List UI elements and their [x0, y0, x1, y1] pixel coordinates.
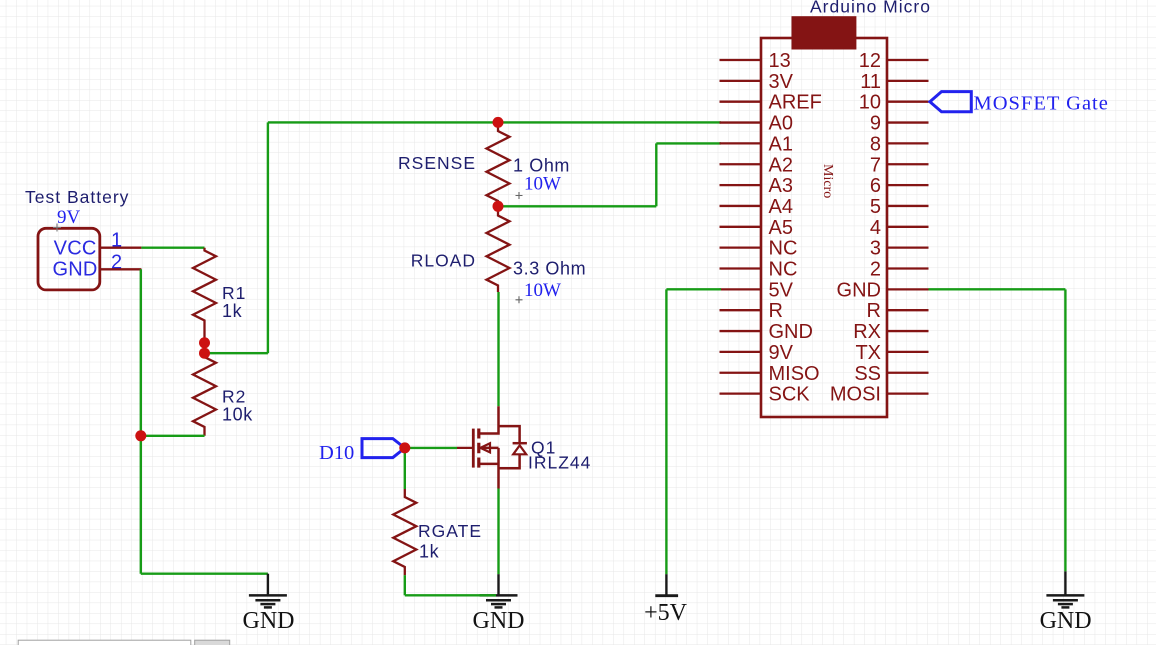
svg-text:SCK: SCK — [769, 384, 811, 406]
svg-text:A3: A3 — [769, 175, 793, 197]
svg-text:RX: RX — [853, 321, 881, 343]
label RGATE — [418, 521, 482, 541]
svg-text:13: 13 — [769, 50, 791, 72]
svg-text:SS: SS — [854, 363, 881, 385]
svg-text:5: 5 — [870, 196, 881, 218]
svg-text:GND: GND — [52, 259, 97, 281]
anchor cross BT1 — [53, 224, 61, 232]
svg-text:9V: 9V — [57, 207, 81, 228]
ground symbol left — [249, 595, 287, 607]
pin name GND — [52, 259, 97, 281]
svg-text:8: 8 — [870, 133, 881, 155]
hierarchical label D10 flag — [362, 439, 405, 458]
pin number 2 — [111, 251, 122, 273]
pin 1 line — [100, 247, 141, 249]
svg-text:3V: 3V — [769, 71, 794, 93]
label R1 — [222, 283, 246, 303]
label Test Battery — [25, 187, 129, 207]
Arduino left pins — [720, 60, 762, 394]
svg-text:D10: D10 — [319, 442, 354, 464]
wire RGATE bottom to ground — [405, 594, 496, 596]
IC U1 Arduino Micro body — [761, 38, 887, 417]
svg-text:10W: 10W — [524, 280, 561, 301]
junction D10 node — [399, 442, 410, 453]
svg-text:A0: A0 — [769, 113, 793, 135]
value 10k — [222, 405, 253, 425]
pin name VCC — [54, 237, 97, 259]
wire tap to right riser — [205, 352, 268, 354]
svg-text:IRLZ44: IRLZ44 — [528, 453, 591, 473]
ui scrollbar button — [195, 640, 230, 645]
svg-text:6: 6 — [870, 175, 881, 197]
junction ground net left — [135, 430, 146, 441]
value 10W RSENSE — [524, 174, 561, 195]
svg-text:R1: R1 — [222, 283, 246, 303]
value 1k R1 — [222, 301, 243, 321]
svg-text:NC: NC — [769, 238, 798, 260]
svg-text:GND: GND — [473, 608, 525, 634]
junction divider tap — [199, 348, 210, 359]
svg-text:7: 7 — [870, 154, 881, 176]
svg-text:A4: A4 — [769, 196, 793, 218]
svg-text:1 Ohm: 1 Ohm — [513, 156, 570, 176]
ground label GND middle — [473, 608, 525, 634]
resistor RSENSE — [487, 122, 510, 206]
svg-text:A1: A1 — [769, 133, 793, 155]
svg-text:3.3 Ohm: 3.3 Ohm — [513, 259, 586, 279]
pin number 1 — [111, 230, 122, 252]
wire RLOAD to Q1 drain — [497, 292, 499, 406]
net label MOSFET Gate — [974, 93, 1109, 115]
svg-text:RLOAD: RLOAD — [411, 251, 476, 271]
svg-text:MISO: MISO — [769, 363, 820, 385]
svg-text:R2: R2 — [222, 387, 246, 407]
svg-text:TX: TX — [855, 342, 881, 364]
label Arduino Micro — [810, 0, 931, 17]
value 3.3 Ohm — [513, 259, 586, 279]
value 1k RGATE — [419, 542, 440, 562]
svg-text:9: 9 — [870, 113, 881, 135]
wire GND right down — [1064, 289, 1066, 571]
label Q1 — [531, 438, 556, 458]
ground label GND left — [243, 608, 295, 634]
wire Q1 source down — [497, 489, 499, 575]
pin 2 line — [100, 268, 141, 270]
svg-text:1k: 1k — [222, 301, 243, 321]
resistor R1 — [193, 248, 216, 343]
ground symbol right — [1046, 595, 1084, 607]
resistor RLOAD — [487, 206, 510, 292]
wire bottom left horizontal — [141, 573, 268, 575]
wire riser to A0 — [267, 122, 269, 353]
svg-text:RSENSE: RSENSE — [398, 153, 476, 173]
svg-text:GND: GND — [1040, 608, 1092, 634]
svg-text:10k: 10k — [222, 405, 253, 425]
svg-text:VCC: VCC — [54, 237, 97, 259]
Arduino right pins — [887, 60, 929, 394]
svg-text:12: 12 — [859, 50, 881, 72]
wire divider middle — [203, 343, 205, 353]
svg-text:Arduino Micro: Arduino Micro — [810, 0, 931, 17]
power symbol +5V — [655, 574, 678, 596]
svg-text:R: R — [769, 300, 783, 322]
junction RSENSE top — [493, 117, 504, 128]
wire 5V pin left — [666, 288, 721, 290]
svg-text:GND: GND — [837, 279, 881, 301]
svg-text:AREF: AREF — [769, 92, 822, 114]
ground stub right — [1064, 571, 1066, 595]
wire A0 horizontal — [268, 121, 721, 123]
Arduino right pin names — [830, 50, 881, 406]
svg-text:R: R — [867, 300, 881, 322]
svg-text:+5V: +5V — [644, 600, 688, 626]
wire battery GND down — [140, 269, 142, 573]
svg-text:NC: NC — [769, 259, 798, 281]
junction RSENSE bottom — [493, 201, 504, 212]
ground stub left — [267, 574, 269, 596]
Arduino left pin names — [769, 50, 822, 406]
ui scrollbar track — [18, 640, 191, 645]
svg-text:2: 2 — [870, 259, 881, 281]
label R2 — [222, 387, 246, 407]
wire R2 bottom — [141, 435, 205, 437]
svg-text:10: 10 — [859, 92, 881, 114]
transistor Q1 — [457, 406, 527, 488]
junction R1 bottom — [199, 337, 210, 348]
svg-text:11: 11 — [860, 71, 881, 93]
ground label GND right — [1040, 608, 1092, 634]
text Micro vertical — [820, 164, 835, 198]
value 1 Ohm — [513, 156, 570, 176]
svg-text:4: 4 — [870, 217, 881, 239]
anchor cross RSENSE — [516, 192, 523, 199]
label RLOAD — [411, 251, 476, 271]
ground stub middle — [497, 574, 499, 595]
value IRLZ44 — [528, 453, 591, 473]
wire D10 to gate — [405, 447, 457, 449]
value 10W RLOAD — [524, 280, 561, 301]
Arduino USB connector block — [792, 16, 857, 49]
wire RGATE to bottom — [404, 575, 406, 595]
wire A1 to pin — [656, 142, 721, 144]
wire A1 horizontal lower — [498, 205, 656, 207]
svg-text:5V: 5V — [769, 279, 794, 301]
svg-text:10W: 10W — [524, 174, 561, 195]
wire 5V down — [665, 289, 667, 574]
wire battery VCC to R1 — [141, 246, 204, 248]
svg-text:Micro: Micro — [820, 164, 835, 198]
label RSENSE — [398, 153, 476, 173]
net label D10 — [319, 442, 354, 464]
svg-text:1k: 1k — [419, 542, 440, 562]
power label +5V — [644, 600, 688, 626]
anchor cross RLOAD — [516, 296, 523, 303]
svg-text:MOSFET Gate: MOSFET Gate — [974, 93, 1109, 115]
wire A1 riser — [655, 143, 657, 206]
svg-text:MOSI: MOSI — [830, 384, 881, 406]
wire D10 down to RGATE — [404, 448, 406, 489]
hierarchical label MOSFET Gate flag — [930, 92, 971, 112]
resistor R2 — [193, 353, 216, 436]
svg-text:A2: A2 — [769, 154, 793, 176]
svg-text:9V: 9V — [769, 342, 794, 364]
wire GND pin right — [929, 288, 1066, 290]
resistor RGATE — [393, 489, 416, 575]
battery BT1 body — [38, 228, 100, 290]
svg-text:RGATE: RGATE — [418, 521, 482, 541]
svg-text:GND: GND — [243, 608, 295, 634]
svg-text:GND: GND — [769, 321, 813, 343]
value 9V — [57, 207, 81, 228]
ground symbol middle — [480, 595, 518, 607]
svg-text:Test Battery: Test Battery — [25, 187, 129, 207]
svg-text:A5: A5 — [769, 217, 793, 239]
svg-text:3: 3 — [870, 238, 881, 260]
